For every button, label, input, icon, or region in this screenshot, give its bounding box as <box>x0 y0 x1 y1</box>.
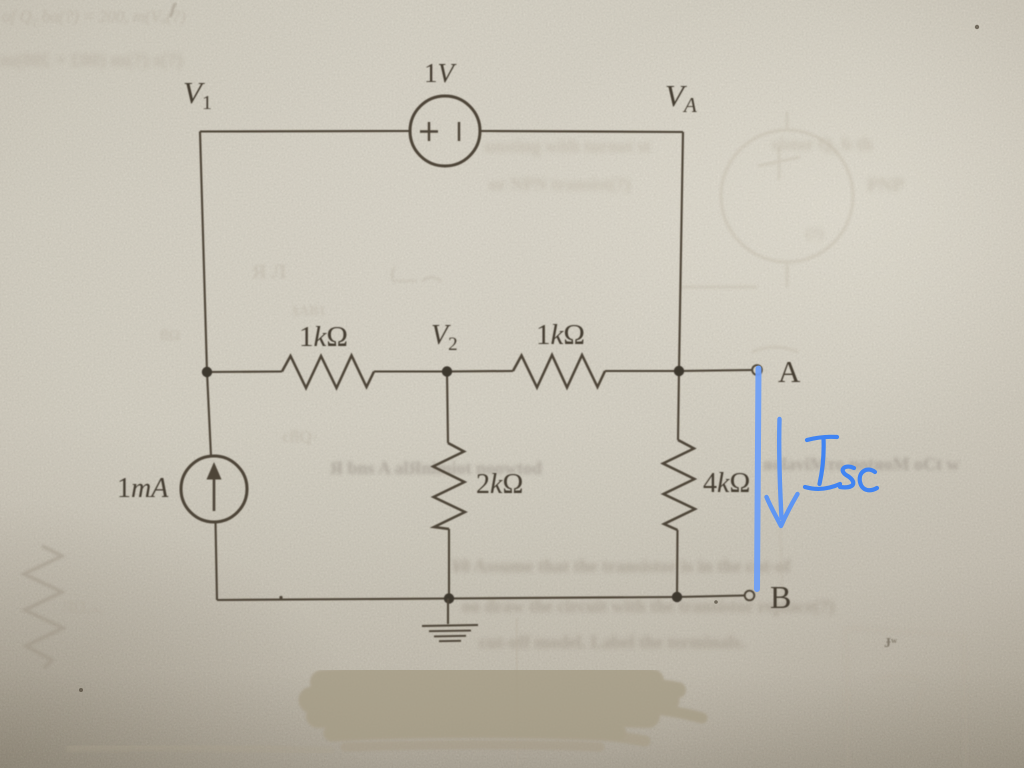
node V2 <box>442 366 452 376</box>
svg-text:§AB1: §AB1 <box>292 304 325 319</box>
svg-text:1kΩ: 1kΩ <box>299 321 348 353</box>
wire 1V source to top-right corner <box>480 131 683 132</box>
resistor R3 2k zigzag vertical <box>433 443 465 529</box>
faint paragraph bottom right <box>452 556 834 652</box>
wire V2 node down to 2k <box>447 372 448 444</box>
wire left vertical V1 down <box>200 132 211 457</box>
svg-text:m(00£ + £00) m(?) s(?): m(00£ + £00) m(?) s(?) <box>0 50 183 71</box>
wire 4k to bottom node <box>676 530 679 597</box>
svg-text:1mA: 1mA <box>117 473 169 504</box>
faint box bottom right <box>846 628 966 768</box>
speck on bottom wire <box>279 596 282 599</box>
svg-text:1V: 1V <box>424 58 458 88</box>
terminal B open circle <box>745 591 755 601</box>
faint vertical fold lines bottom <box>516 618 518 768</box>
terminal A open circle <box>752 365 762 375</box>
plus symbol inside source <box>420 122 438 141</box>
svg-text:A: A <box>778 354 801 389</box>
faint text row regulator Q <box>484 134 904 242</box>
voltage source V1 1V circle <box>410 96 480 166</box>
svg-text:2kΩ: 2kΩ <box>476 469 523 500</box>
svg-text:(﹏ ︵: (﹏ ︵ <box>390 263 442 285</box>
wire 2k to bottom node <box>448 529 450 599</box>
wire top-left V1 corner to 1V source <box>200 130 410 133</box>
wire right vertical <box>678 132 683 440</box>
node bottom under V2 <box>444 593 454 603</box>
svg-text:Я Л: Я Л <box>252 261 286 283</box>
svg-text:Ɉʷ: Ɉʷ <box>884 636 898 651</box>
ground stem <box>447 599 449 625</box>
svg-text:4kΩ: 4kΩ <box>703 468 750 499</box>
wire below current source to bottom-left corner <box>216 522 218 600</box>
wire R1 to V2 node <box>374 370 447 372</box>
svg-text:Л(1︵: Л(1︵ <box>62 599 103 616</box>
minus bar inside source <box>458 122 460 141</box>
faint mirrored band between terminals <box>330 454 960 478</box>
resistor R4 4k zigzag vertical <box>663 440 695 530</box>
svg-text:ﬂΩ: ﬂΩ <box>160 328 180 344</box>
faint bleed text band upper <box>0 50 183 71</box>
dark speck near top wire <box>714 600 718 604</box>
faint marks middle <box>62 261 442 616</box>
svg-text:B: B <box>770 579 791 615</box>
wire right node to terminal A <box>679 370 753 371</box>
node bottom right <box>672 592 682 602</box>
blue short-circuit wire A to B <box>757 369 759 590</box>
faint handwriting top edge <box>2 7 186 26</box>
wire R2 to right node <box>605 370 679 372</box>
dark speck top right <box>975 25 979 29</box>
ground bars <box>422 625 478 641</box>
svg-text:¥0 Assume that the transistor: ¥0 Assume that the transistor is in the … <box>452 556 792 576</box>
blue annotation <box>757 369 877 590</box>
smudge <box>70 677 702 752</box>
svg-text:sistor Q₂ b th: sistor Q₂ b th <box>772 134 873 154</box>
svg-text:cﬂQ·: cﬂQ· <box>282 427 318 446</box>
current source I1 1mA circle <box>181 456 247 522</box>
svg-text:cut-off model. Label the termi: cut-off model. Label the terminals. <box>479 632 745 652</box>
svg-text:PNP: PNP <box>867 175 904 196</box>
svg-text:1kΩ: 1kΩ <box>536 319 585 351</box>
current source arrow <box>213 478 216 511</box>
circuit labels <box>117 58 801 615</box>
svg-text:(?): (?) <box>806 226 824 242</box>
faint pen squiggle top <box>170 3 176 17</box>
svg-text:or NPN transist(?): or NPN transist(?) <box>489 174 631 195</box>
resistor R2 1k zigzag <box>513 355 605 388</box>
wire V2 node to R2 <box>447 370 513 373</box>
resistor R1 1k zigzag <box>282 356 374 389</box>
wire middle left node to R1 <box>207 370 282 373</box>
dark speck left <box>79 688 83 692</box>
svg-text:unsting with turnot st: unsting with turnot st <box>484 136 651 156</box>
blue arrow Isc <box>779 419 781 518</box>
node left <box>202 367 212 377</box>
svg-text:of Q₂ ba(?) = 200, m(Vₐ(?): of Q₂ ba(?) = 200, m(Vₐ(?) <box>2 7 186 26</box>
handwritten Isc label <box>805 437 877 490</box>
faint transistor figure bleed <box>680 112 853 352</box>
faint pencil resistor left margin <box>24 546 63 668</box>
node right <box>674 366 684 376</box>
wire bottom <box>217 596 744 601</box>
